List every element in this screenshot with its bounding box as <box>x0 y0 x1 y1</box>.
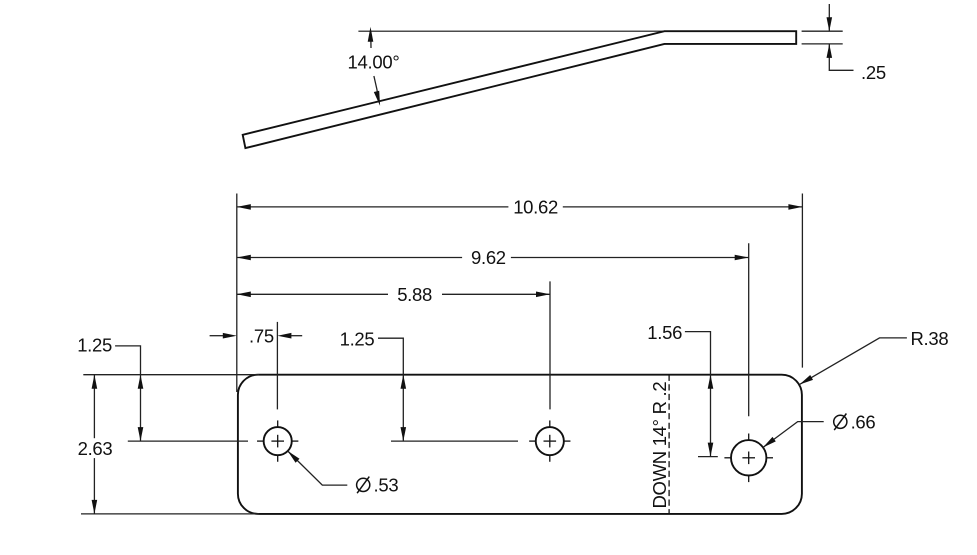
svg-text:5.88: 5.88 <box>397 284 432 305</box>
svg-text:1.56: 1.56 <box>647 322 682 343</box>
ext line left-hole centerline going left <box>128 440 248 442</box>
svg-text:14.00°: 14.00° <box>348 51 400 72</box>
angle dimension arc 14.00 (lower segment) <box>374 76 379 102</box>
side profile plate outline (bent sheet, 14 deg) <box>243 31 797 148</box>
dim 9.62 arrows <box>237 255 749 261</box>
svg-text:10.62: 10.62 <box>513 197 558 218</box>
leader R.38 arrow <box>800 375 814 385</box>
ext line plate left edge upward <box>236 194 238 393</box>
leader dia .66 <box>763 422 824 448</box>
thickness dim line lower + elbow <box>829 44 853 70</box>
thickness dim line upper <box>828 4 830 31</box>
bend line (dashed) DOWN 14 R.2 <box>668 375 670 514</box>
label dia .66 <box>834 411 876 432</box>
dim 10.62 line <box>237 206 803 208</box>
left hole center mark <box>257 420 298 461</box>
dim .75 right shaft+arrow <box>277 333 302 339</box>
middle hole circle <box>536 427 564 455</box>
svg-text:.25: .25 <box>861 62 886 83</box>
dim 2.63 line <box>93 375 95 514</box>
leader dia .53 arrow <box>288 451 300 463</box>
angle dimension arc 14.00 (upper segment) <box>370 31 373 48</box>
arc arrow bottom <box>374 91 380 106</box>
dim .75 left shaft+arrow <box>210 333 237 339</box>
svg-text:2.63: 2.63 <box>78 438 113 459</box>
dim 2.63 arrows <box>92 375 98 514</box>
right hole center mark <box>724 434 773 483</box>
svg-text:.75: .75 <box>249 326 274 347</box>
ext line plate right edge upward <box>801 194 803 368</box>
dim 1.25-mid arrows <box>401 375 407 441</box>
ext line right-hole centerline going up <box>748 243 750 416</box>
right hole circle <box>731 440 766 475</box>
dim 5.88 arrows <box>237 292 550 298</box>
ext line top edge to left <box>83 374 259 376</box>
ext line mid-hole centerline going left <box>391 440 518 442</box>
leader R.38 <box>800 338 907 385</box>
extension line top of thickness <box>802 30 843 32</box>
extension line bottom of thickness <box>802 43 843 45</box>
arc arrow top <box>368 27 374 42</box>
thickness dim arrow down <box>827 17 833 31</box>
svg-text:.53: .53 <box>374 474 399 495</box>
dim 9.62 line <box>237 257 749 259</box>
label dia .53 <box>357 474 399 495</box>
dim 5.88 line <box>237 293 550 295</box>
flat plate outline (rounded rect R.38) <box>238 375 802 514</box>
dim 10.62 arrows <box>237 204 803 210</box>
svg-text:DOWN 14° R .2: DOWN 14° R .2 <box>649 382 670 509</box>
svg-text:R.38: R.38 <box>911 328 949 349</box>
ext line right-hole centerline going left <box>698 456 718 458</box>
svg-text:1.25: 1.25 <box>77 334 112 355</box>
dim 1.25-mid elbow+line <box>378 338 403 441</box>
leader dia .53 <box>288 451 348 485</box>
leader dia .66 arrow <box>763 437 776 448</box>
ext line bottom edge to left <box>81 513 259 515</box>
dim 1.25-left elbow+line <box>115 346 140 441</box>
middle hole center mark <box>529 420 570 461</box>
ext line mid-hole centerline going up <box>549 281 551 409</box>
thickness dim arrow up <box>827 44 833 58</box>
ext line left-hole centerline going up <box>276 322 278 410</box>
svg-text:9.62: 9.62 <box>471 247 506 268</box>
left hole circle <box>264 427 292 455</box>
dim 1.56 elbow+line <box>685 332 711 457</box>
dim 1.25-left arrows <box>138 375 144 441</box>
svg-text:.66: .66 <box>851 411 876 432</box>
angle reference line (horizontal) <box>358 30 664 32</box>
dim 1.56 arrows <box>708 375 714 457</box>
svg-text:1.25: 1.25 <box>340 328 375 349</box>
